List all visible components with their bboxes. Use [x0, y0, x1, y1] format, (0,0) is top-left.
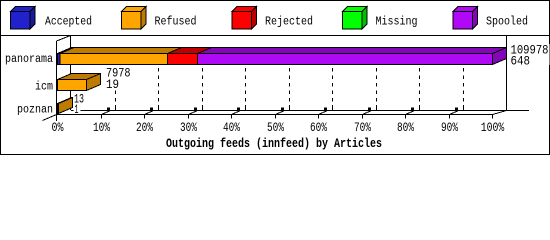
svg-text:40%: 40%: [223, 120, 240, 135]
bar poznan: right cap: [59, 98, 73, 114]
x axis back line: [71, 110, 529, 112]
legend cube Refused (orange): [122, 7, 147, 30]
svg-text:0%: 0%: [52, 120, 64, 135]
svg-text:90%: 90%: [441, 120, 458, 135]
svg-text:60%: 60%: [310, 120, 327, 135]
svg-text:1: 1: [75, 103, 79, 117]
svg-text:30%: 30%: [180, 120, 197, 135]
bar panorama: value labels: [510, 44, 550, 65]
tick junction blobs: [107, 108, 458, 111]
svg-text:Rejected: Rejected: [265, 15, 313, 29]
image border: [1, 1, 550, 155]
svg-text:icm: icm: [35, 81, 53, 94]
svg-text:panorama: panorama: [5, 53, 53, 66]
svg-text:100%: 100%: [481, 120, 505, 135]
svg-text:80%: 80%: [397, 120, 414, 135]
svg-text:poznan: poznan: [17, 104, 53, 117]
svg-text:Spooled: Spooled: [486, 15, 528, 29]
svg-text:Accepted: Accepted: [45, 15, 92, 29]
dashed gridlines 10%..90% (back plane): [116, 65, 464, 102]
legend cube Spooled (purple): [453, 7, 478, 30]
bar poznan: front face: [58, 104, 59, 114]
legend separator line: [0, 35, 550, 37]
bar panorama: top faces (dark): [58, 48, 75, 54]
svg-text:50%: 50%: [267, 120, 284, 135]
x axis front line: [57, 114, 493, 116]
bar poznan: top face (dark orange): [58, 98, 73, 104]
bar poznan: value labels: [74, 94, 87, 104]
bar icm: front face: [58, 80, 87, 91]
bar panorama: right cap (dark purple): [493, 48, 507, 65]
svg-text:19: 19: [106, 78, 119, 92]
svg-text:Outgoing feeds (innfeed) by Ar: Outgoing feeds (innfeed) by Articles: [166, 136, 382, 151]
x axis ticks and floor depth marks: [102, 111, 493, 119]
x axis percent labels: [52, 120, 505, 135]
svg-text:70%: 70%: [354, 120, 371, 135]
y axis top depth edge: [57, 36, 71, 42]
svg-text:648: 648: [511, 55, 531, 69]
x axis right end depth edge: [493, 111, 507, 115]
legend cube Rejected (red): [232, 7, 257, 30]
right axis (back 100%): [506, 36, 508, 111]
x axis left end depth edge: [43, 115, 57, 121]
bar panorama: front faces: [58, 54, 61, 65]
bar icm: right cap: [87, 74, 101, 91]
svg-text:20%: 20%: [136, 120, 153, 135]
svg-text:Refused: Refused: [155, 15, 197, 29]
legend cube Missing (green): [343, 7, 368, 30]
svg-text:Missing: Missing: [376, 15, 418, 29]
y axis front line: [56, 41, 58, 121]
svg-text:10%: 10%: [93, 120, 110, 135]
legend cube Accepted (blue): [11, 7, 36, 30]
bar icm: top face (dark orange): [58, 74, 101, 80]
y axis back line: [70, 36, 72, 111]
bar icm: value labels: [106, 67, 132, 90]
